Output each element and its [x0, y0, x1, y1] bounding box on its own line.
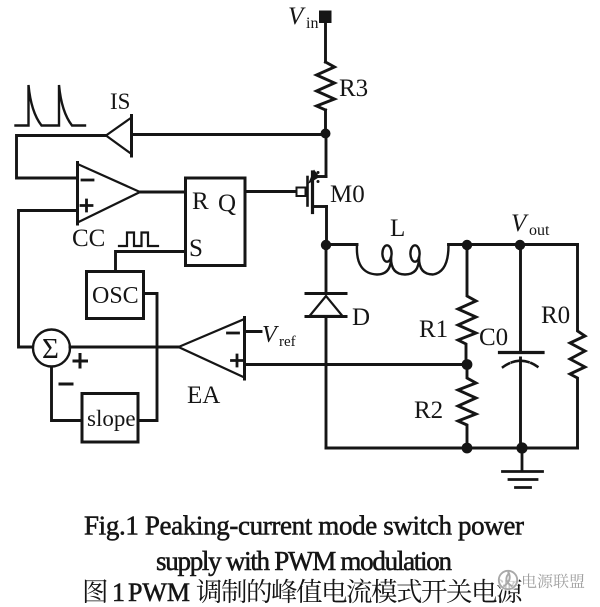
wire diode to ground rail [325, 317, 328, 449]
node C0 ground junction [516, 442, 527, 453]
label OSC [92, 283, 139, 309]
svg-text:D: D [352, 304, 370, 331]
svg-text:OSC: OSC [92, 283, 139, 309]
label R0 [541, 302, 570, 329]
svg-text:S: S [189, 235, 203, 262]
caption line 1 [84, 511, 524, 541]
ground [503, 448, 543, 488]
wire switch node to diode [325, 245, 328, 293]
wire R3-drain [324, 110, 327, 133]
svg-text:1: 1 [112, 578, 125, 607]
svg-text:slope: slope [87, 406, 136, 431]
svg-text:R3: R3 [339, 75, 368, 102]
svg-text:CC: CC [72, 225, 105, 252]
label R Q S [189, 188, 236, 262]
svg-text:supply with PWM modulation: supply with PWM modulation [156, 546, 453, 576]
node drain junction [321, 129, 331, 139]
sign minus sigma [60, 383, 72, 386]
node Vref [245, 330, 262, 333]
svg-text:Fig.1 Peaking-current mode swi: Fig.1 Peaking-current mode switch power [84, 511, 524, 541]
summer U2 sigma [33, 330, 70, 367]
svg-text:M0: M0 [330, 181, 365, 208]
label R1 [419, 316, 448, 343]
transistor M0 [297, 139, 327, 240]
watermark logo [497, 569, 519, 591]
resistor R0 [570, 245, 585, 448]
flip-flop RS latch U1 [186, 178, 246, 266]
block slope [82, 394, 138, 443]
svg-text:ref: ref [279, 334, 296, 350]
label sigma [42, 333, 59, 365]
node R2 ground junction [462, 443, 473, 454]
label EA [187, 382, 220, 409]
wire Q to gate M0 [245, 190, 296, 193]
wire IS input [132, 133, 326, 136]
svg-text:R2: R2 [414, 397, 443, 424]
label Vref [262, 322, 296, 350]
wire slope to sigma [52, 367, 83, 421]
svg-text:out: out [529, 222, 550, 239]
label L [390, 215, 405, 242]
svg-text:Q: Q [218, 190, 236, 217]
wire OSC to S [116, 252, 186, 272]
node output junction A [462, 240, 472, 250]
svg-text:Σ: Σ [42, 333, 59, 365]
wire OSC to slope [138, 294, 157, 421]
wire IS output to CC minus [17, 136, 107, 179]
diode D [306, 294, 346, 317]
sign plus sigma [74, 355, 87, 368]
svg-text:IS: IS [110, 89, 130, 114]
label slope [87, 406, 136, 431]
caption line 2 [156, 546, 453, 576]
node Vin terminal [319, 11, 332, 24]
wire CC output [140, 191, 185, 194]
svg-text:R0: R0 [541, 302, 570, 329]
wire ground rail [326, 447, 578, 450]
svg-text:C0: C0 [479, 324, 508, 351]
wire EA output to sigma [70, 346, 179, 349]
svg-text:V: V [262, 322, 279, 348]
capacitor C0 [500, 245, 544, 448]
svg-text:L: L [390, 215, 405, 242]
label R3 [339, 75, 368, 102]
node switch junction [321, 240, 331, 250]
label C0 [479, 324, 508, 351]
label M0 [330, 181, 365, 208]
wire sigma to CC plus [19, 211, 78, 348]
svg-text:in: in [306, 15, 318, 32]
wire to inductor [326, 243, 357, 246]
wire output rail [449, 243, 578, 246]
svg-text:EA: EA [187, 382, 220, 409]
svg-text:R1: R1 [419, 316, 448, 343]
inductor L [357, 245, 449, 275]
node feedback junction [462, 359, 473, 370]
resistor R2 [458, 365, 476, 448]
caption line 3 (Chinese) [85, 578, 522, 607]
label Vout [511, 210, 550, 239]
svg-text:PWM: PWM [128, 578, 190, 607]
watermark text [523, 574, 584, 589]
waveform current-sense sawtooth [16, 85, 86, 126]
label CC [72, 225, 105, 252]
wire Vin-R3 [324, 23, 327, 62]
label Vin [288, 3, 318, 32]
resistor R3 [317, 62, 335, 110]
svg-text:R: R [192, 188, 209, 215]
resistor R1 [458, 245, 476, 364]
label R2 [414, 397, 443, 424]
node Vout [515, 240, 525, 250]
op-amp EA [179, 318, 245, 380]
op-amp CC [78, 163, 141, 225]
wire feedback to EA plus [245, 363, 468, 366]
label IS [110, 89, 130, 114]
waveform clock pulses [119, 233, 158, 247]
label D [352, 304, 370, 331]
buffer IS [106, 116, 132, 157]
oscillator OSC [87, 272, 144, 319]
